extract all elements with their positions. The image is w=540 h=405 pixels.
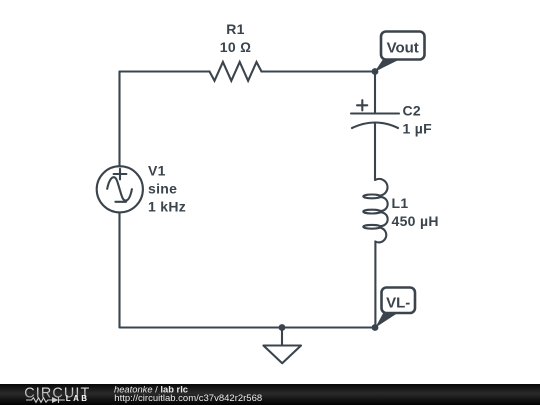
svg-text:VL-: VL- (386, 295, 410, 312)
svg-text:R1: R1 (226, 21, 245, 37)
svg-text:LAB: LAB (66, 394, 90, 403)
svg-text:sine: sine (148, 181, 177, 197)
svg-text:10 Ω: 10 Ω (220, 39, 251, 55)
svg-text:L1: L1 (392, 195, 409, 211)
svg-text:450 µH: 450 µH (392, 213, 439, 229)
svg-text:Vout: Vout (387, 40, 419, 57)
svg-text:1 µF: 1 µF (403, 121, 433, 137)
svg-text:http://circuitlab.com/c37v842r: http://circuitlab.com/c37v842r2r568 (114, 393, 262, 404)
svg-text:1 kHz: 1 kHz (148, 198, 186, 214)
svg-text:C2: C2 (403, 103, 422, 119)
svg-text:V1: V1 (148, 163, 166, 179)
